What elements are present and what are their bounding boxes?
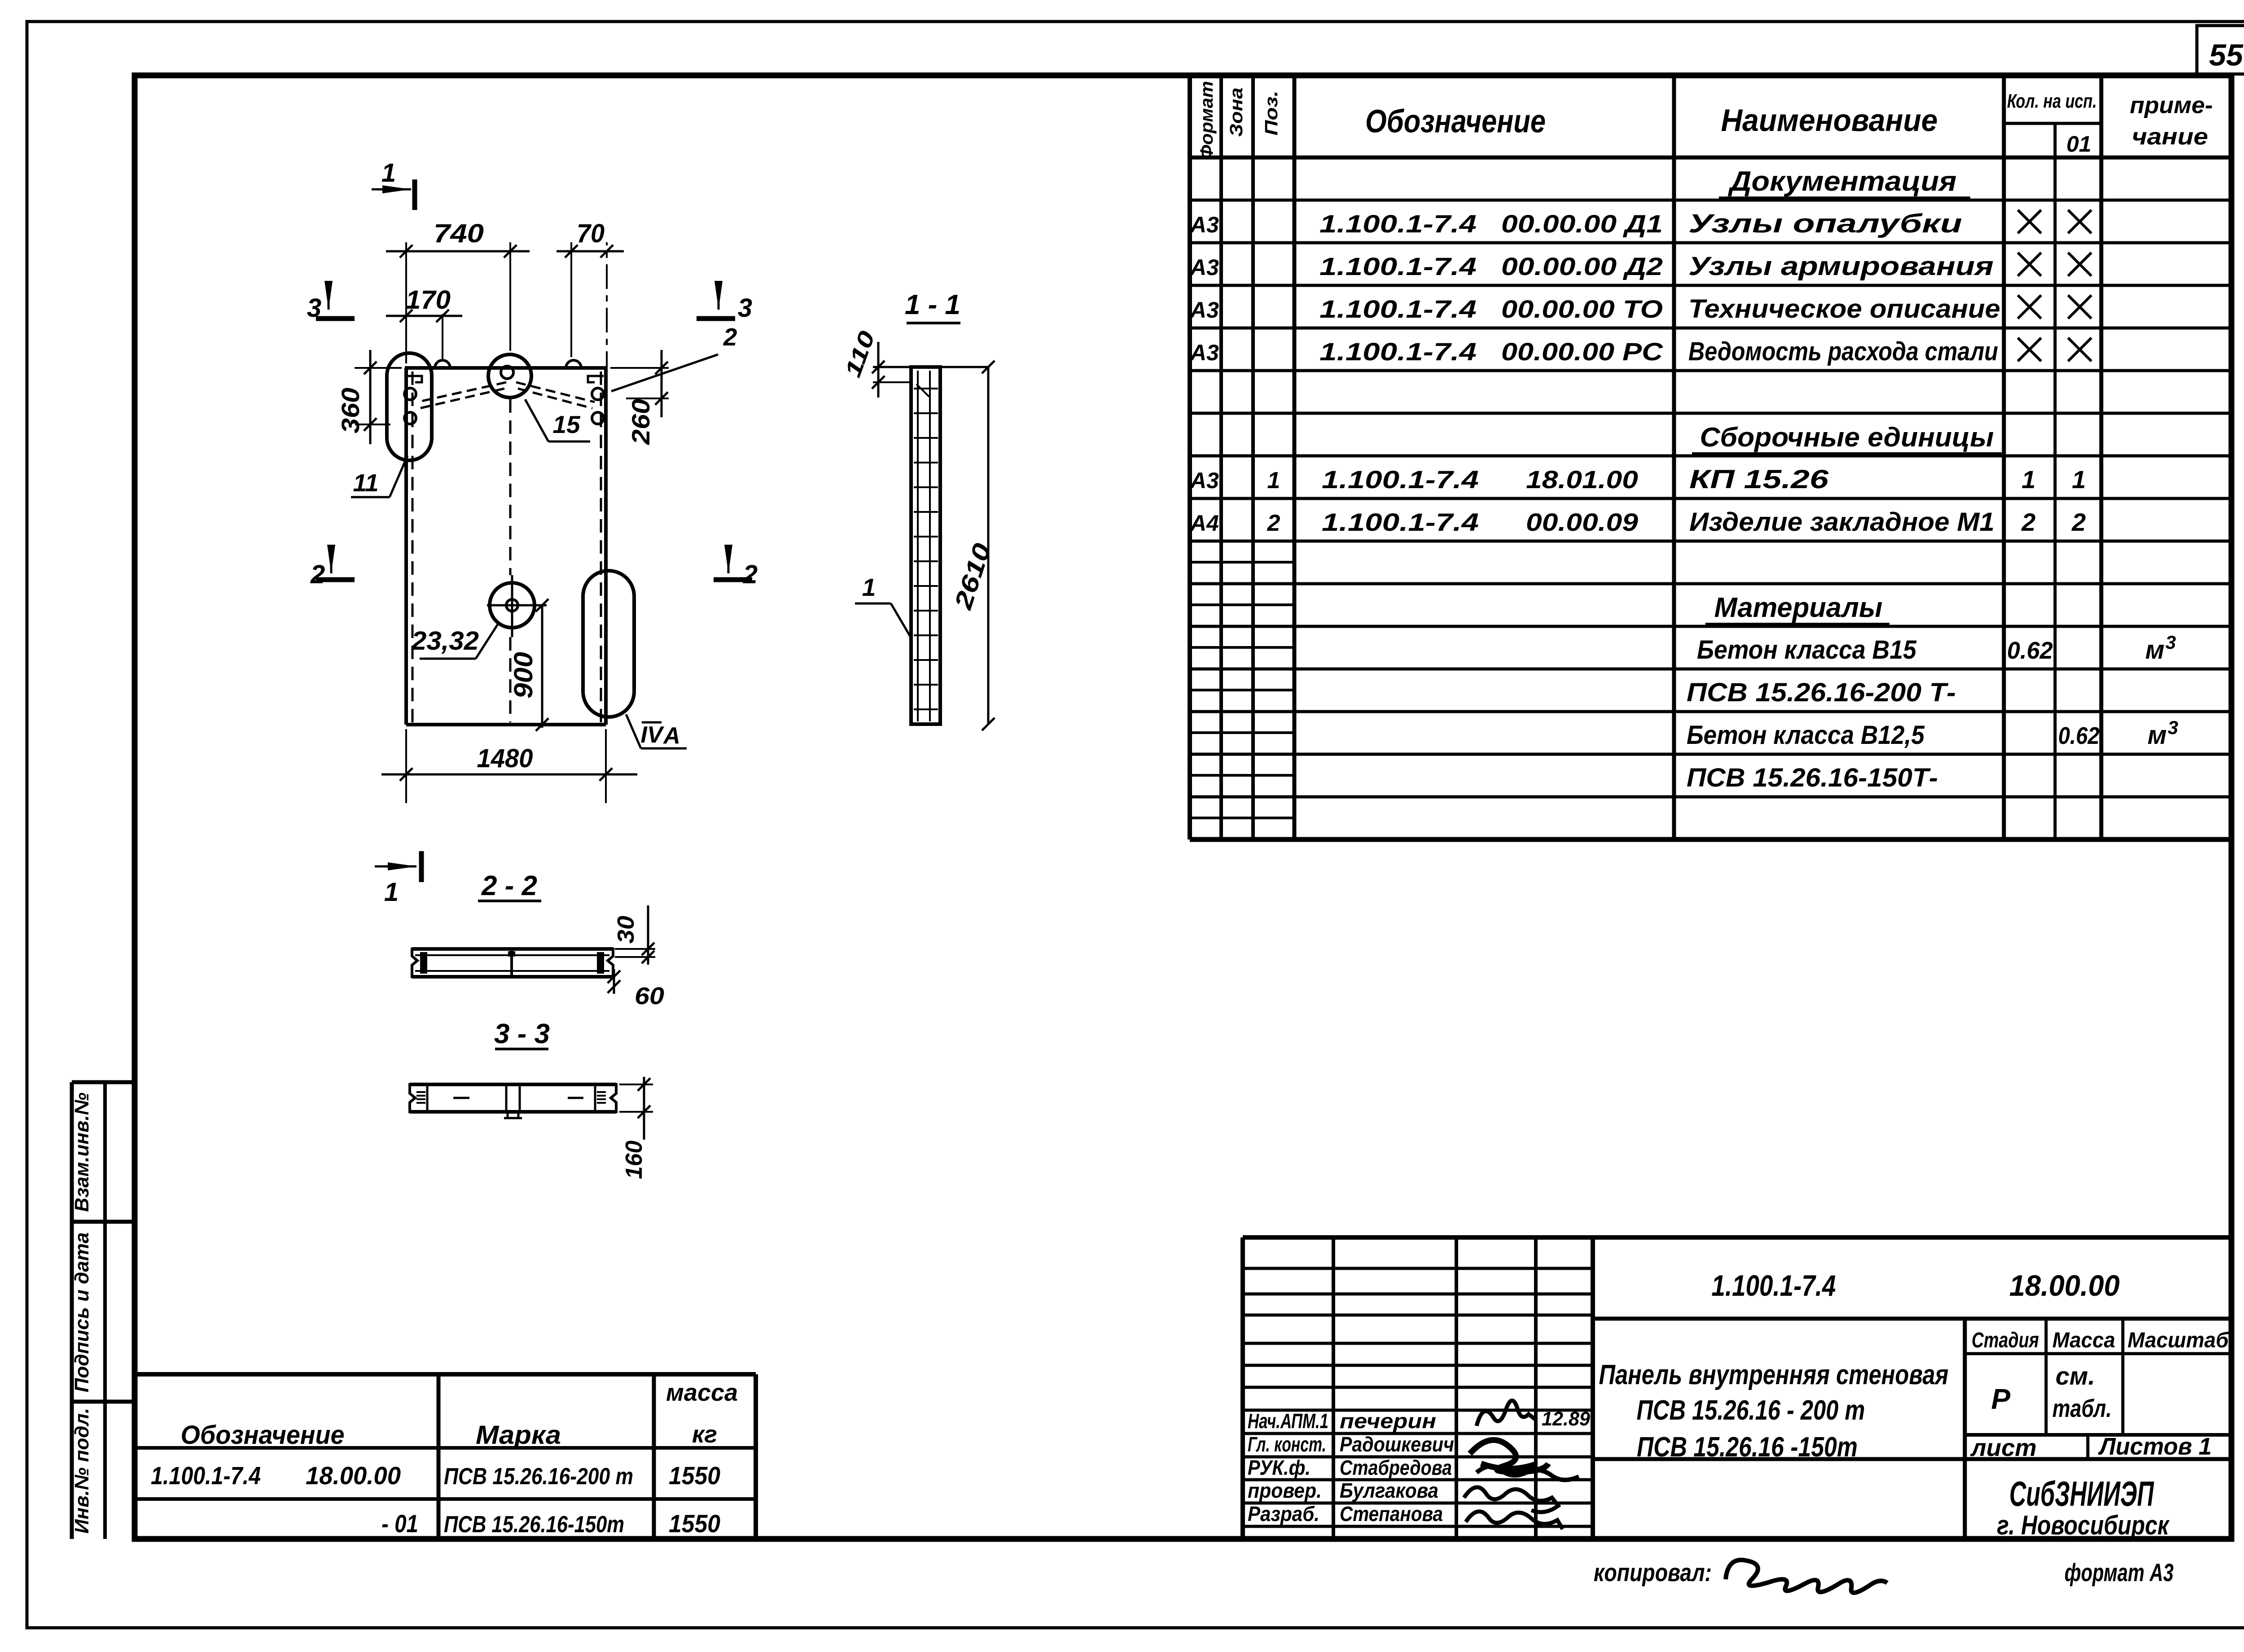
svg-text:18.01.00: 18.01.00 <box>1526 465 1638 494</box>
svg-text:1.100.1-7.4: 1.100.1-7.4 <box>1319 252 1477 280</box>
spec row: PSV 200 <box>1687 678 1956 707</box>
svg-text:Р: Р <box>1991 1383 2011 1415</box>
svg-text:2 - 2: 2 - 2 <box>481 870 537 901</box>
spec row: Materialy heading <box>1705 592 1889 624</box>
svg-text:г. Новосибирск: г. Новосибирск <box>1997 1510 2170 1540</box>
sidebar stamp boxes <box>72 1082 135 1539</box>
plan: top-left lifting slot (stadium) 11 <box>387 353 432 460</box>
svg-text:Степанова: Степанова <box>1340 1502 1443 1525</box>
svg-text:3 - 3: 3 - 3 <box>494 1018 550 1049</box>
dim 110 <box>840 328 911 398</box>
svg-text:00.00.09: 00.00.09 <box>1526 508 1638 536</box>
spec row: ТО <box>1189 294 2091 323</box>
svg-text:Гл. конст.: Гл. конст. <box>1248 1433 1326 1456</box>
svg-text:18.00.00: 18.00.00 <box>306 1461 401 1490</box>
svg-text:1.100.1-7.4: 1.100.1-7.4 <box>1319 337 1477 366</box>
svg-text:Зона: Зона <box>1227 87 1246 137</box>
svg-text:30: 30 <box>613 916 639 944</box>
spec row: Sborochnye edinicy heading <box>1692 422 2002 454</box>
svg-text:РУК.ф.: РУК.ф. <box>1248 1456 1310 1479</box>
spec row: Izdelie zakladnoe M1 <box>1189 507 2086 537</box>
plan: corner notches <box>406 376 604 382</box>
svg-text:2: 2 <box>743 560 758 589</box>
svg-text:ПСВ 15.26.16 - 200 т: ПСВ 15.26.16 - 200 т <box>1637 1395 1865 1426</box>
svg-text:740: 740 <box>434 219 484 248</box>
svg-text:Узлы армирования: Узлы армирования <box>1688 252 1994 281</box>
svg-text:Марка: Марка <box>476 1420 561 1450</box>
svg-text:Взам.инв.№: Взам.инв.№ <box>71 1093 93 1212</box>
svg-text:IV: IV <box>640 722 664 748</box>
svg-text:00.00.00 РС: 00.00.00 РС <box>1501 337 1664 366</box>
svg-text:Инв.№ подл.: Инв.№ подл. <box>71 1408 93 1534</box>
svg-text:00.00.00 Д1: 00.00.00 Д1 <box>1501 210 1663 238</box>
plan view: panel outline <box>405 368 607 725</box>
plan: top edge loops <box>435 360 581 368</box>
section 2-2 heading <box>478 870 541 901</box>
svg-text:Листов 1: Листов 1 <box>2098 1433 2212 1460</box>
svg-text:360: 360 <box>336 388 364 433</box>
bottom-left table headers <box>181 1379 738 1450</box>
svg-text:1.100.1-7.4: 1.100.1-7.4 <box>1712 1269 1836 1302</box>
svg-text:А: А <box>662 723 680 749</box>
svg-text:Масса: Масса <box>2052 1329 2115 1352</box>
bottom-left table row 2 <box>381 1509 720 1538</box>
svg-text:Узлы опалубки: Узлы опалубки <box>1688 209 1962 238</box>
svg-text:01: 01 <box>2066 131 2091 157</box>
svg-text:Бетон класса В12,5: Бетон класса В12,5 <box>1687 721 1925 750</box>
svg-text:печерин: печерин <box>1340 1409 1436 1433</box>
plan: right edge small holes <box>592 388 604 424</box>
svg-text:масса: масса <box>666 1379 738 1406</box>
svg-text:А3: А3 <box>1189 468 1219 493</box>
svg-text:0.62: 0.62 <box>2007 637 2053 664</box>
svg-text:70: 70 <box>577 219 605 248</box>
dim 60 <box>608 969 664 1010</box>
svg-text:23,32: 23,32 <box>411 626 479 656</box>
svg-text:1: 1 <box>384 878 399 907</box>
svg-text:Нач.АПМ.1: Нач.АПМ.1 <box>1248 1409 1328 1433</box>
svg-text:2: 2 <box>723 323 737 351</box>
title block doc numbers <box>1712 1269 2120 1302</box>
svg-text:КП 15.26: КП 15.26 <box>1689 465 1829 494</box>
svg-text:Обозначение: Обозначение <box>1365 104 1546 140</box>
svg-text:чание: чание <box>2132 124 2208 150</box>
spec row: Dokumentaciya heading <box>1719 166 1970 198</box>
svg-text:12.89: 12.89 <box>1542 1408 1591 1430</box>
dim 2610 <box>949 361 996 730</box>
svg-text:ПСВ 15.26.16 -150т: ПСВ 15.26.16 -150т <box>1637 1432 1858 1463</box>
title block org <box>1997 1474 2170 1540</box>
svg-text:Бетон класса В15: Бетон класса В15 <box>1697 635 1917 664</box>
dim 360 <box>336 350 402 444</box>
svg-text:170: 170 <box>406 285 451 315</box>
dim 70 top <box>557 219 624 420</box>
svg-text:3: 3 <box>2168 717 2178 738</box>
spec table grid <box>1190 75 2231 839</box>
svg-text:А3: А3 <box>1189 212 1219 237</box>
svg-text:ПСВ 15.26.16-150т: ПСВ 15.26.16-150т <box>444 1512 624 1538</box>
svg-text:1.100.1-7.4: 1.100.1-7.4 <box>1319 210 1477 238</box>
svg-text:3: 3 <box>2165 632 2176 653</box>
svg-text:1550: 1550 <box>669 1509 720 1538</box>
svg-text:1.100.1-7.4: 1.100.1-7.4 <box>1322 465 1479 494</box>
label 1 (section 1-1) <box>855 573 912 639</box>
spec row: Beton B15 <box>1697 632 2176 664</box>
svg-text:- 01: - 01 <box>381 1509 418 1538</box>
svg-text:Документация: Документация <box>1727 166 1956 197</box>
label 2 <box>611 323 737 391</box>
title block name <box>1599 1359 1949 1463</box>
svg-text:Изделие закладное М1: Изделие закладное М1 <box>1689 507 1994 537</box>
label 15 <box>525 399 590 441</box>
spec row: РС <box>1189 337 2091 366</box>
page number box 55 <box>2197 26 2244 74</box>
svg-text:3: 3 <box>738 293 752 323</box>
dim 1480 <box>381 729 637 803</box>
svg-text:60: 60 <box>635 983 664 1010</box>
label 11 <box>351 456 408 497</box>
svg-text:см.: см. <box>2056 1362 2095 1390</box>
svg-text:Сборочные единицы: Сборочные единицы <box>1700 422 1994 452</box>
svg-text:формат А3: формат А3 <box>2064 1558 2174 1586</box>
svg-text:Панель внутренняя стеновая: Панель внутренняя стеновая <box>1599 1359 1949 1390</box>
svg-text:15: 15 <box>552 411 581 438</box>
svg-text:11: 11 <box>353 469 378 497</box>
plan view: hidden dashed edges <box>412 371 601 722</box>
section 3-3 heading <box>494 1018 550 1049</box>
svg-text:2: 2 <box>2071 508 2086 536</box>
svg-text:2: 2 <box>1267 510 1280 536</box>
title block stage/mass/scale <box>1972 1329 2229 1422</box>
spec row: Beton B12.5 <box>1687 717 2178 750</box>
spec row: Д2 <box>1189 252 2091 281</box>
plan: bottom-center hole 23,32 <box>487 575 547 637</box>
svg-text:1.100.1-7.4: 1.100.1-7.4 <box>1319 295 1477 323</box>
section 3-3 body <box>410 1084 616 1118</box>
plan: top-center hole 15 <box>488 354 531 398</box>
svg-text:1: 1 <box>862 573 876 601</box>
svg-text:лист: лист <box>1970 1434 2037 1461</box>
svg-text:1550: 1550 <box>669 1461 720 1490</box>
section 1-1 heading <box>905 289 960 323</box>
svg-text:0.62: 0.62 <box>2058 722 2099 749</box>
svg-text:ПСВ 15.26.16-200 т: ПСВ 15.26.16-200 т <box>444 1464 633 1490</box>
svg-text:1.100.1-7.4: 1.100.1-7.4 <box>1322 508 1479 536</box>
svg-text:табл.: табл. <box>2052 1394 2112 1422</box>
svg-text:1: 1 <box>1267 468 1280 494</box>
section 2-2 body <box>412 949 613 977</box>
svg-text:00.00.00 Д2: 00.00.00 Д2 <box>1501 252 1663 280</box>
svg-text:Техническое описание: Техническое описание <box>1688 294 2000 323</box>
dim 160 <box>619 1077 653 1179</box>
section mark 1 bottom <box>375 851 421 907</box>
svg-text:Материалы: Материалы <box>1714 592 1883 623</box>
svg-text:1: 1 <box>2072 465 2086 494</box>
plan: left edge small holes <box>404 388 416 424</box>
title block list row <box>1970 1433 2212 1461</box>
bottom-left table row 1 <box>151 1461 720 1490</box>
svg-text:м: м <box>2145 635 2165 664</box>
section mark 2 right <box>714 545 758 589</box>
svg-text:Формат: Формат <box>1197 81 1217 160</box>
svg-text:Обозначение: Обозначение <box>181 1420 345 1450</box>
section mark 3 right <box>697 281 752 323</box>
label 23,32 <box>411 624 498 659</box>
label IV A <box>626 714 687 749</box>
svg-text:Ведомость расхода стали: Ведомость расхода стали <box>1688 337 1998 366</box>
svg-text:кг: кг <box>692 1421 717 1448</box>
svg-text:1: 1 <box>2021 465 2035 494</box>
plan: dashed loop diagonals <box>417 382 595 408</box>
svg-text:18.00.00: 18.00.00 <box>2009 1269 2120 1302</box>
dim 170 <box>386 285 462 359</box>
spec row: KP 15.26 <box>1189 465 2086 494</box>
svg-text:Стадия: Стадия <box>1972 1329 2039 1352</box>
dim 260 <box>610 350 669 445</box>
svg-text:Разраб.: Разраб. <box>1248 1502 1319 1525</box>
svg-text:1: 1 <box>381 158 396 188</box>
svg-text:А3: А3 <box>1189 297 1219 323</box>
section mark 2 left <box>310 545 355 589</box>
svg-text:А3: А3 <box>1189 340 1219 365</box>
svg-text:Наименование: Наименование <box>1721 103 1938 138</box>
svg-text:Масштаб: Масштаб <box>2128 1329 2229 1352</box>
svg-text:1.100.1-7.4: 1.100.1-7.4 <box>151 1461 261 1490</box>
svg-text:ПСВ 15.26.16-150Т-: ПСВ 15.26.16-150Т- <box>1687 763 1938 792</box>
kopiroval note <box>1594 1558 1887 1593</box>
svg-text:ПСВ 15.26.16-200 Т-: ПСВ 15.26.16-200 Т- <box>1687 678 1956 707</box>
svg-text:провер.: провер. <box>1248 1479 1322 1502</box>
svg-text:Радошкевич: Радошкевич <box>1340 1433 1454 1456</box>
dim 30 <box>613 905 655 965</box>
svg-text:260: 260 <box>627 399 655 445</box>
title block grid <box>1243 1237 2231 1539</box>
svg-text:55: 55 <box>2209 38 2244 72</box>
spec row: PSV 150 <box>1687 763 1938 792</box>
section 1-1 top extension <box>873 366 987 368</box>
svg-text:1 - 1: 1 - 1 <box>905 289 960 320</box>
svg-text:1480: 1480 <box>477 744 533 773</box>
svg-text:А4: А4 <box>1189 511 1219 536</box>
svg-text:Стабредова: Стабредова <box>1340 1456 1452 1479</box>
bottom-left table grid <box>135 1374 756 1539</box>
svg-text:м: м <box>2148 721 2167 750</box>
dim 900 <box>509 599 548 731</box>
svg-text:2: 2 <box>2021 508 2035 536</box>
svg-text:160: 160 <box>621 1141 647 1179</box>
svg-text:2: 2 <box>310 560 325 589</box>
svg-text:00.00.00 ТО: 00.00.00 ТО <box>1501 295 1663 323</box>
svg-text:А3: А3 <box>1189 255 1219 280</box>
svg-text:копировал:: копировал: <box>1594 1558 1712 1586</box>
plan: bottom-right slot IV A <box>583 571 634 717</box>
section mark 3 left <box>307 281 355 323</box>
dim 740 <box>386 219 530 363</box>
signatures scribbles <box>1464 1400 1579 1529</box>
svg-text:Поз.: Поз. <box>1262 91 1281 135</box>
spec table headers <box>1197 81 2213 160</box>
section mark 1 top <box>372 158 415 210</box>
svg-text:СибЗНИИЭП: СибЗНИИЭП <box>2009 1474 2154 1513</box>
svg-text:900: 900 <box>509 652 538 699</box>
svg-text:Кол. на исп.: Кол. на исп. <box>2007 90 2097 112</box>
spec row: Д1 <box>1189 209 2091 238</box>
svg-text:приме-: приме- <box>2130 92 2213 118</box>
svg-text:Булгакова: Булгакова <box>1340 1479 1438 1502</box>
svg-text:Подпись и дата: Подпись и дата <box>71 1232 93 1393</box>
section 1-1 body <box>911 367 940 724</box>
title block signature rows <box>1248 1408 1591 1525</box>
